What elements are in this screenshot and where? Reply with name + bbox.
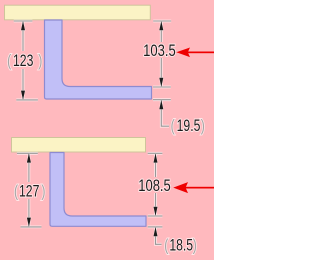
arrowhead up (dim 19.5, below arm) [159, 100, 163, 109]
svg-text:(: ( [164, 237, 168, 255]
svg-text:18.5: 18.5 [169, 237, 193, 255]
dimension text 103.5 [143, 43, 176, 61]
dimension text (19.5) [171, 117, 205, 135]
arrowhead up (dim 103.5 top) [159, 21, 163, 30]
dimension line 127 upper segment [28, 153, 30, 182]
extension line (arm top edge, right side) [153, 86, 171, 88]
svg-text:108.5: 108.5 [138, 177, 171, 195]
plate P1 (top figure cream bar) [5, 5, 151, 20]
red leader arrow A1 (points at 103.5) [176, 48, 214, 58]
plate P2 (bottom figure cream bar) [12, 138, 146, 153]
white halo underlay for dimension/extension lines [14, 21, 172, 244]
dimension line 108.5 lower segment [155, 193, 157, 216]
svg-text:123: 123 [13, 52, 33, 70]
extension line (bottom of dim 123, below bracket B1) [16, 99, 38, 101]
extension line (top of dim 108.5, right of plate P2) [148, 152, 163, 154]
dimension line 103.5 upper segment [160, 21, 162, 42]
svg-text:): ) [41, 183, 45, 201]
dimension text (18.5) [164, 237, 197, 255]
svg-text:19.5: 19.5 [177, 117, 201, 135]
extension line (arm bottom edge, right side) [153, 99, 171, 101]
svg-text:): ) [193, 237, 197, 255]
svg-text:(: ( [7, 52, 11, 70]
extension line (top of dim 103.5, right of plate P1) [153, 20, 171, 22]
dimension text (123) [7, 52, 42, 70]
svg-text:(: ( [171, 117, 175, 135]
svg-text:): ) [38, 52, 42, 70]
arrowhead up (dim 127 top) [27, 153, 31, 162]
dimension text (127) [14, 183, 45, 201]
red leader arrow A2 (points at 108.5) [173, 182, 214, 193]
dimension line 123 upper segment [22, 21, 24, 51]
extension line (arm bottom edge, right side, bottom figure) [148, 226, 163, 228]
svg-text:127: 127 [19, 183, 39, 201]
L-bracket B2 (bottom figure) [50, 153, 146, 227]
svg-text:): ) [201, 117, 205, 135]
L-bracket B1 (top figure) [45, 20, 152, 99]
arrowhead down (dim 103.5 bottom) [159, 78, 163, 87]
dimension line 123 lower segment [22, 69, 24, 100]
dimension line 103.5 lower segment [160, 58, 162, 87]
extension line (top of dim 127, under plate P2) [17, 152, 38, 154]
dimension text 108.5 [138, 177, 171, 195]
svg-text:(: ( [14, 183, 18, 201]
arrowhead down (dim 127 bottom) [27, 218, 31, 227]
arrowhead down (dim 123 bottom) [21, 91, 25, 100]
arrowhead up (dim 108.5 top) [154, 153, 158, 162]
dimension line 127 lower segment [28, 199, 30, 227]
arrowhead up (dim 18.5, below arm, bottom figure) [154, 227, 158, 236]
leader line dim 18.5 [156, 227, 162, 244]
arrowhead up (dim 123 top) [21, 21, 25, 30]
leader line dim 19.5 [161, 100, 169, 126]
svg-text:103.5: 103.5 [143, 43, 176, 61]
arrowhead down (dim 108.5 bottom) [154, 207, 158, 216]
extension line (top of dim 123, under plate P1) [14, 20, 33, 22]
extension line (arm top edge, right side, bottom figure) [148, 215, 163, 217]
dimension line 108.5 upper segment [155, 153, 157, 177]
extension line (bottom of dim 127, below bracket B2) [21, 226, 42, 228]
